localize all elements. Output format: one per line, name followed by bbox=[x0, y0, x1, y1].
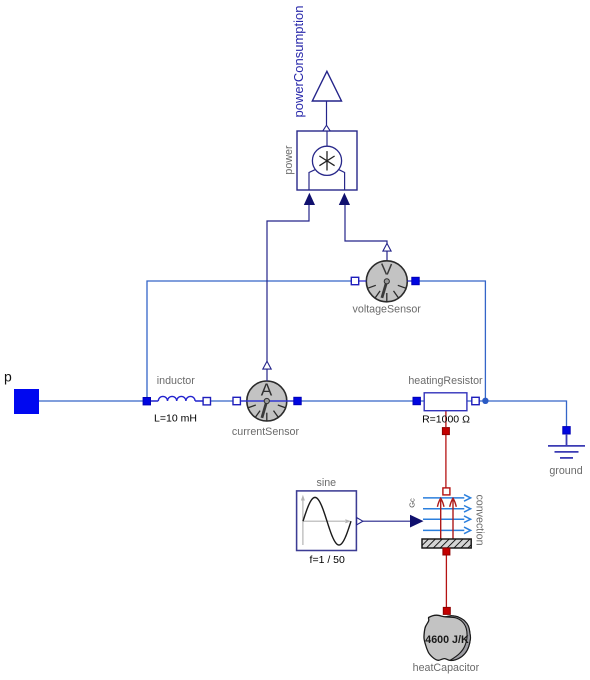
svg-text:voltageSensor: voltageSensor bbox=[353, 304, 422, 316]
svg-text:f=1 / 50: f=1 / 50 bbox=[310, 554, 345, 566]
svg-text:sine: sine bbox=[316, 477, 336, 489]
svg-text:ground: ground bbox=[549, 465, 582, 477]
svg-text:heatCapacitor: heatCapacitor bbox=[413, 662, 480, 674]
svg-text:4600 J/K: 4600 J/K bbox=[425, 634, 469, 646]
svg-text:A: A bbox=[261, 380, 273, 400]
svg-text:heatingResistor: heatingResistor bbox=[408, 375, 483, 387]
svg-text:currentSensor: currentSensor bbox=[232, 426, 300, 438]
svg-text:power: power bbox=[283, 145, 295, 175]
svg-text:inductor: inductor bbox=[157, 375, 195, 387]
svg-text:R=1000 Ω: R=1000 Ω bbox=[422, 414, 470, 426]
svg-text:powerConsumption: powerConsumption bbox=[291, 5, 306, 117]
svg-text:convection: convection bbox=[474, 494, 486, 545]
svg-text:Gc: Gc bbox=[407, 498, 416, 508]
svg-text:p: p bbox=[4, 369, 12, 385]
svg-text:L=10 mH: L=10 mH bbox=[154, 413, 197, 425]
